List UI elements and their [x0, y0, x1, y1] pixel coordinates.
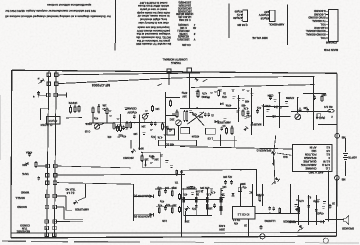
wire horizontal inner	[180, 108, 237, 110]
scan edge smudge left	[0, 95, 2, 160]
svg-text:1.5kΩ(R): 1.5kΩ(R)	[178, 23, 189, 26]
svg-text:2SA733(P): 2SA733(P)	[178, 4, 191, 7]
resistor column BR1	[298, 195, 304, 225]
svg-text:2SC121(L): 2SC121(L)	[177, 29, 189, 32]
svg-text:MAIN PCB: MAIN PCB	[324, 48, 338, 52]
wire path pin row 8b	[56, 207, 83, 219]
svg-text:NB: NB	[342, 136, 346, 140]
svg-text:AF IN: AF IN	[310, 145, 317, 149]
svg-text:char are in factory elec: char are in factory elec	[138, 21, 169, 25]
svg-text:8.1: 8.1	[326, 152, 330, 156]
svg-text:(L) 1.5: (L) 1.5	[66, 191, 74, 195]
svg-text:470k: 470k	[225, 104, 231, 107]
inner board vertical right	[313, 76, 315, 130]
resistor R10 on wire L2	[176, 169, 183, 176]
svg-text:IC-CD 1.2: IC-CD 1.2	[237, 213, 249, 217]
driver row 2 rc group	[156, 203, 177, 222]
connector pin pair 8	[45, 205, 56, 209]
gap filler components A	[117, 124, 125, 132]
svg-text:MINI VALUE: MINI VALUE	[252, 36, 268, 40]
parts list column	[176, 1, 197, 41]
connector box mid border	[158, 69, 172, 86]
center band wire	[85, 122, 166, 123]
bottom extra labels	[184, 185, 226, 223]
connector circle P1	[335, 134, 345, 140]
bottom cross wires	[181, 189, 224, 200]
svg-text:470k: 470k	[265, 104, 271, 107]
bus wire B	[58, 76, 315, 83]
transistor Q6	[243, 126, 248, 131]
svg-text:47μ: 47μ	[150, 135, 155, 138]
center band extra labels	[93, 104, 174, 139]
svg-text:104: 104	[220, 193, 225, 196]
svg-text:3Ω 1/4: 3Ω 1/4	[324, 105, 333, 109]
filter block F1	[167, 129, 175, 135]
svg-text:6.2: 6.2	[326, 145, 330, 149]
svg-text:47Ω: 47Ω	[222, 95, 227, 98]
wire vertical 234	[234, 136, 236, 147]
wire stub pin row 9	[56, 221, 83, 223]
svg-text:9.1 W: 9.1 W	[323, 160, 330, 164]
resistor column BR2	[307, 195, 311, 225]
svg-text:10μ: 10μ	[164, 125, 169, 128]
battery B1	[343, 138, 357, 176]
microphone input cluster	[22, 151, 47, 181]
svg-text:47/104: 47/104	[191, 135, 199, 138]
svg-text:47k: 47k	[107, 135, 112, 138]
svg-text:TR 2.5: TR 2.5	[232, 218, 240, 221]
driver row 2 label and diode	[133, 213, 153, 219]
connector pin pair 9	[45, 220, 56, 224]
svg-text:MA150: MA150	[253, 123, 261, 126]
svg-text:Be careful TV chassis 2SC: Be careful TV chassis 2SC	[136, 42, 171, 46]
svg-text:1kΩ: 1kΩ	[283, 155, 288, 158]
long wire L2	[56, 173, 185, 176]
resistor R20 on wire	[279, 207, 295, 222]
resistor R9	[141, 155, 148, 162]
connector column wire 2	[54, 71, 56, 238]
resistor R14	[231, 126, 233, 135]
gap filler components C	[152, 105, 160, 112]
junction dot 238	[238, 107, 240, 109]
svg-text:104: 104	[222, 185, 227, 188]
svg-text:47μ: 47μ	[148, 155, 153, 158]
wire vertical 263	[263, 104, 265, 126]
svg-text:100Ω: 100Ω	[201, 95, 207, 98]
small rect jack 1	[317, 114, 321, 118]
svg-text:1000: 1000	[240, 182, 246, 185]
svg-text:250V: 250V	[219, 228, 225, 231]
crossing wires X	[188, 112, 205, 126]
svg-text:47μ: 47μ	[159, 200, 164, 203]
svg-text:LOWS/TV NORMAL: LOWS/TV NORMAL	[162, 57, 187, 61]
speaker LS1	[342, 215, 354, 229]
svg-text:MF-CP2003: MF-CP2003	[92, 83, 110, 87]
schematic border bottom 2	[11, 232, 337, 235]
wire bottom right horizontal	[290, 220, 325, 223]
svg-text:1 C5: 1 C5	[207, 136, 213, 139]
svg-text:TAPE: TAPE	[22, 172, 29, 176]
driver row 1 rc group	[155, 186, 177, 203]
svg-text:C 10K: C 10K	[180, 26, 187, 29]
svg-text:4.7k: 4.7k	[202, 92, 207, 95]
svg-text:104: 104	[164, 186, 169, 189]
transistor Q10	[295, 206, 300, 211]
resistor R8b	[176, 110, 178, 118]
capacitor C19 speaker	[329, 202, 335, 209]
svg-text:2k 104: 2k 104	[195, 190, 203, 193]
gap filler components D	[256, 106, 261, 113]
diode D1	[37, 77, 44, 84]
connector pin pair 7	[45, 194, 56, 198]
scan edge smudge bottom	[2, 241, 359, 243]
wires above ic	[241, 184, 263, 206]
voltage table	[293, 145, 333, 175]
svg-text:4.7k 104: 4.7k 104	[200, 186, 210, 189]
wire from pin row 6 to driver section	[56, 183, 133, 221]
svg-text:47μ: 47μ	[93, 117, 98, 120]
wire stub pin row 4	[57, 166, 131, 168]
connector pin pair 5	[46, 173, 57, 177]
connector pin pair 10	[45, 226, 56, 230]
svg-text:SPEAKER: SPEAKER	[342, 227, 354, 230]
capacitor C14 pair	[223, 175, 233, 184]
capacitor C16 square	[238, 182, 246, 192]
svg-text:104: 104	[141, 125, 146, 128]
transistor Q5 mid	[123, 140, 144, 159]
svg-text:for Schematic diagram a at cat: for Schematic diagram a at catalog termi…	[5, 14, 111, 18]
transistor Q11	[298, 225, 304, 232]
svg-text:1 Ω: 1 Ω	[326, 167, 330, 171]
capacitor C6 pair	[150, 122, 156, 138]
svg-text:47k: 47k	[183, 193, 188, 196]
svg-text:4.7k: 4.7k	[157, 136, 162, 139]
wire vertical center	[139, 114, 141, 150]
resistor R4 hanging	[92, 107, 94, 108]
capacitor C17 pair on wire	[265, 206, 276, 222]
svg-text:QUAL/FRE: QUAL/FRE	[303, 160, 317, 164]
resistor R3 hanging	[98, 104, 100, 113]
resistor R19	[257, 193, 264, 202]
amp section box	[181, 169, 257, 237]
svg-text:(1.7μ)/1N: (1.7μ)/1N	[41, 123, 53, 127]
wire path pin row 7	[56, 196, 72, 210]
svg-text:specifications without notices: specifications without notices	[47, 3, 91, 7]
svg-text:104: 104	[198, 115, 203, 118]
capacitor C11	[267, 94, 273, 100]
svg-text:LL2/470Ω: LL2/470Ω	[265, 219, 276, 222]
transistor Q1	[73, 184, 89, 212]
wire label top of schematic	[162, 57, 187, 64]
transistor Q6b	[271, 151, 292, 166]
wire below ic	[248, 219, 250, 236]
label 470mu col	[181, 91, 187, 98]
label tilk	[65, 188, 75, 196]
transistor Q2	[94, 124, 104, 130]
wire jog left column	[41, 98, 49, 120]
wire horizontal 106	[264, 104, 288, 108]
capacitor C13	[307, 108, 309, 110]
svg-text:SPEAKER: SPEAKER	[304, 156, 317, 160]
svg-text:472: 472	[165, 203, 170, 206]
svg-text:103: 103	[208, 207, 213, 210]
svg-text:TREBLE: TREBLE	[171, 61, 181, 64]
resistor R12	[218, 89, 227, 98]
label 0.022 250V	[218, 224, 225, 231]
option block B2	[206, 128, 216, 139]
capacitor C9 pair	[204, 113, 210, 117]
svg-text:2SC: 2SC	[184, 220, 189, 223]
svg-text:2SC: 2SC	[169, 118, 174, 121]
svg-text:AMPLIFIER: AMPLIFIER	[75, 208, 89, 212]
transistor Q4	[176, 120, 182, 126]
svg-text:47μ: 47μ	[256, 106, 261, 109]
resistor R6 pair	[120, 121, 132, 137]
svg-text:2SC1815(Y): 2SC1815(Y)	[178, 6, 192, 9]
svg-text:1S1555 MA150: 1S1555 MA150	[176, 12, 194, 15]
resistor oval R15	[328, 109, 334, 112]
svg-text:C3-10k: C3-10k	[181, 43, 190, 47]
svg-text:RADIATOR (L): RADIATOR (L)	[134, 194, 152, 198]
svg-text:SPEAKER Ω: SPEAKER Ω	[257, 149, 272, 152]
if transformer block	[159, 140, 197, 146]
svg-text:2.2k: 2.2k	[162, 219, 167, 222]
svg-text:WAND: WAND	[21, 191, 29, 195]
diode D7	[231, 193, 234, 196]
svg-text:470μ50: 470μ50	[233, 16, 243, 20]
resistor R7	[162, 123, 164, 124]
ground arrow mid	[144, 161, 147, 167]
svg-text:AMT A 74/Ω: AMT A 74/Ω	[308, 171, 324, 175]
wire stub pin row 3	[39, 93, 67, 98]
resistor R1 group	[66, 105, 82, 119]
transistor Q8	[272, 177, 280, 185]
resistor R8	[170, 100, 172, 101]
svg-text:47μ/16V: 47μ/16V	[127, 111, 137, 114]
svg-text:47μ: 47μ	[157, 186, 162, 189]
svg-text:1C: 1C	[222, 124, 225, 127]
svg-text:0.75 Ω: 0.75 Ω	[322, 163, 330, 167]
svg-text:VOL: VOL	[320, 36, 326, 40]
connector column wire 1	[47, 71, 49, 238]
svg-text:47μ 16V: 47μ 16V	[223, 175, 232, 178]
driver row 1 label and diode	[133, 194, 153, 198]
long wire L1	[180, 147, 292, 149]
transistor Q7	[295, 114, 301, 120]
schematic border left	[10, 70, 13, 238]
svg-text:455: 455	[241, 104, 246, 107]
schematic border top	[12, 70, 337, 73]
junction dot inner	[196, 107, 198, 109]
label condor tuner	[20, 223, 30, 230]
svg-text:AMPHENOL: AMPHENOL	[268, 22, 284, 26]
resistor R18	[206, 203, 208, 204]
connector legend U-B	[259, 10, 285, 26]
capacitor C5 node	[125, 107, 137, 124]
lc module box	[143, 152, 161, 168]
svg-text:C 1/F 84Ω: C 1/F 84Ω	[179, 18, 191, 21]
resistor columns bottom left	[183, 188, 225, 216]
wire vertical 276	[274, 135, 276, 184]
short wire 328	[328, 170, 330, 221]
connector pin pair 2	[47, 82, 58, 86]
wire vertical 297	[297, 97, 299, 113]
wire horizontal 116	[266, 115, 291, 118]
svg-text:10k: 10k	[102, 104, 107, 107]
svg-text:NPO: NPO	[138, 147, 143, 150]
driver far right parts	[175, 181, 181, 213]
transistor Q9	[184, 206, 189, 222]
connector box on border	[187, 68, 191, 72]
svg-text:47μ: 47μ	[157, 204, 162, 207]
svg-text:HZ10k(B): HZ10k(B)	[178, 35, 189, 38]
svg-text:223: 223	[172, 204, 177, 207]
capacitor C18 below ic	[260, 225, 262, 227]
power ic U4	[233, 206, 256, 219]
jack circle J2	[323, 238, 328, 243]
svg-text:1 M71k: 1 M71k	[179, 32, 188, 35]
svg-text:(3μF)-Ω: (3μF)-Ω	[316, 116, 325, 120]
labels below ic	[232, 218, 247, 227]
option block B1	[181, 128, 190, 134]
svg-text:47μ/25: 47μ/25	[316, 212, 324, 215]
svg-text:CHANNE: CHANNE	[305, 167, 316, 171]
wire vertical 251	[251, 88, 253, 135]
svg-text:104/47k: 104/47k	[68, 101, 77, 104]
svg-text:4.7k: 4.7k	[299, 199, 304, 202]
svg-text:104: 104	[155, 107, 160, 110]
wire below boxes	[213, 139, 237, 141]
svg-text:4.7/25: 4.7/25	[257, 193, 264, 196]
svg-text:4.7k: 4.7k	[210, 191, 215, 194]
svg-text:NB: NB	[342, 178, 346, 182]
svg-text:RADIATOR (R): RADIATOR (R)	[133, 215, 151, 219]
divider line left	[114, 0, 116, 51]
svg-text:470μ: 470μ	[181, 91, 187, 94]
schematic border bottom	[11, 236, 337, 238]
resistor R5	[106, 108, 119, 130]
schematic border right	[336, 73, 339, 236]
bus wire A	[58, 73, 200, 75]
diode D3	[220, 102, 231, 106]
tick on bus B	[203, 79, 208, 82]
svg-text:4.7μ/1N: 4.7μ/1N	[48, 119, 57, 122]
svg-text:TILK 4Ω: TILK 4Ω	[65, 188, 75, 192]
diode D5 MA150	[251, 122, 262, 125]
svg-text:ADPTR: ADPTR	[348, 156, 357, 159]
inner board outline top	[191, 85, 315, 88]
connector pin pair 11	[45, 233, 56, 237]
wire vertical 238	[238, 95, 240, 122]
connector pin pair 4	[46, 164, 57, 168]
svg-text:4R: 4R	[193, 26, 196, 29]
capacitor C10	[221, 127, 223, 129]
center band extra wires	[93, 114, 179, 140]
svg-text:1kΩ: 1kΩ	[312, 149, 317, 153]
svg-text:4.7k: 4.7k	[192, 113, 197, 116]
capacitor C15	[195, 204, 197, 206]
svg-text:2SC2320(S): 2SC2320(S)	[178, 9, 192, 12]
svg-text:455: 455	[244, 100, 249, 103]
capacitor C12	[299, 108, 301, 110]
wire horizontal 111	[291, 111, 331, 113]
svg-text:Q 84 M6: Q 84 M6	[237, 23, 248, 27]
svg-text:2SC945(R): 2SC945(R)	[178, 1, 191, 4]
svg-text:TR: TR	[175, 181, 179, 184]
svg-text:4.7k: 4.7k	[206, 193, 211, 196]
svg-text:2SC9: 2SC9	[85, 122, 92, 125]
diode D4 bold	[214, 120, 230, 127]
svg-text:0.022: 0.022	[218, 224, 225, 227]
wire vertical right 291	[290, 184, 292, 213]
svg-text:(C)H1498: (C)H1498	[325, 41, 337, 45]
wire vertical right of band	[166, 92, 181, 148]
svg-text:4.5: 4.5	[326, 149, 330, 153]
tall resistor pair left	[184, 110, 188, 122]
svg-text:16V: 16V	[154, 158, 159, 161]
svg-text:HZ-6C1 (B): HZ-6C1 (B)	[178, 15, 191, 18]
block K1 left bottom	[47, 117, 61, 125]
note paragraph top-left	[4, 3, 110, 18]
jack circle J1	[260, 234, 265, 239]
svg-text:C-15: C-15	[84, 130, 90, 133]
wire down from connector	[189, 72, 191, 108]
svg-text:16V: 16V	[182, 95, 187, 98]
svg-text:47μ: 47μ	[191, 207, 196, 210]
wire right of ic	[255, 213, 300, 215]
capacitor C7	[148, 155, 158, 161]
wire vertical 279	[279, 92, 281, 128]
connector pin pair 3	[47, 93, 58, 97]
svg-text:47k/5%: 47k/5%	[285, 96, 294, 99]
notes paragraph middle	[136, 1, 171, 46]
diode D2	[194, 77, 198, 81]
connector legend main pcb	[305, 9, 338, 52]
svg-text:103: 103	[133, 132, 138, 135]
resistor R13	[226, 127, 228, 128]
connector circle P2	[335, 176, 346, 182]
svg-text:10μF: 10μF	[171, 186, 177, 189]
svg-text:455 1C: 455 1C	[166, 142, 174, 145]
svg-text:100: 100	[303, 106, 308, 109]
svg-text:SOUND: SOUND	[17, 205, 27, 209]
svg-text:103: 103	[144, 158, 149, 161]
gap filler components B	[242, 107, 249, 117]
divider line right	[286, 5, 288, 46]
capacitor C1	[33, 91, 40, 98]
divider line middle	[228, 4, 230, 39]
connector pin pair 1	[47, 73, 58, 77]
transistor Q3	[142, 114, 147, 119]
svg-text:63μ/16: 63μ/16	[260, 16, 269, 20]
svg-text:AMRACTICE: AMRACTICE	[301, 163, 317, 167]
wire to speaker	[325, 219, 344, 221]
connector pin pair 6	[46, 181, 57, 185]
connector legend U-A	[233, 10, 268, 40]
resistor column BR3	[313, 195, 324, 225]
texture label marks	[102, 89, 326, 208]
svg-text:AMPLIFIER: AMPLIFIER	[217, 121, 231, 124]
wire right top	[318, 124, 337, 126]
svg-text:4.7k: 4.7k	[243, 107, 248, 110]
svg-text:2SC1815: 2SC1815	[123, 156, 134, 159]
svg-text:NIVELL: NIVELL	[15, 196, 25, 200]
right top extra parts	[303, 93, 327, 102]
svg-text:W4 104 whichever manufacturer: W4 104 whichever manufacturer outputs Am…	[4, 9, 95, 13]
wire vertical 220	[220, 135, 222, 147]
svg-text:REVERSE: REVERSE	[16, 230, 30, 234]
svg-text:1SS133(V): 1SS133(V)	[177, 37, 189, 40]
